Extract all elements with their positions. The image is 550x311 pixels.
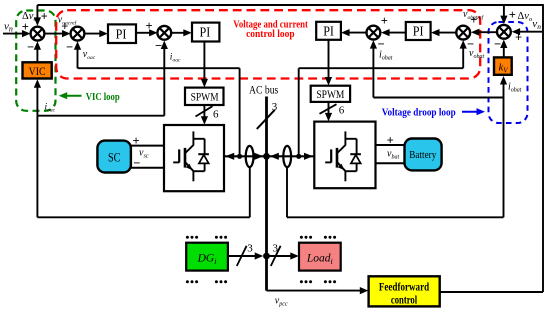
svg-text:SC: SC (108, 151, 121, 165)
block DG_i (186, 243, 228, 271)
svg-text:+: + (387, 134, 394, 148)
block k_V (494, 57, 512, 74)
svg-text:+: + (470, 13, 477, 27)
green dashed VIC loop boundary (16, 11, 55, 111)
wire right border feedforward (542, 4, 544, 292)
transistor IGBT with diode converter2 (325, 131, 361, 181)
svg-text:vpcc: vpcc (275, 296, 288, 308)
wire PI2 down to SPWM1 (203, 42, 205, 82)
transistor IGBT with diode converter1 (173, 131, 209, 181)
svg-text:VIC loop: VIC loop (86, 92, 120, 103)
svg-text:+: + (61, 20, 68, 34)
wire v_pcc to feedforward (267, 290, 363, 292)
wire v_obat sense (298, 68, 300, 156)
svg-text:−: − (155, 38, 162, 52)
svg-text:vn: vn (4, 21, 13, 34)
summer S3 (157, 26, 171, 40)
wire k_V to S6 (503, 45, 505, 58)
wire S2 to PI1 (84, 33, 101, 35)
summer S6 (497, 25, 511, 39)
svg-text:Voltage droop loop: Voltage droop loop (382, 106, 456, 118)
wire PI4 to S4 (387, 32, 406, 34)
wire PI1 to S3 (136, 32, 152, 34)
inductor ellipse L2 (283, 146, 291, 167)
svg-text:−: − (387, 156, 394, 170)
wire S1 to S2 (44, 33, 64, 35)
dots above DG_i (186, 236, 198, 239)
block feedforward control (369, 276, 440, 306)
red dashed voltage and current control loop boundary (56, 10, 480, 78)
svg-text:PI: PI (116, 26, 127, 41)
svg-text:+: + (41, 10, 48, 24)
svg-text:3: 3 (272, 101, 278, 113)
wire S4 to PI3 (347, 32, 367, 34)
svg-text:AC bus: AC bus (249, 84, 279, 96)
wire i_obat sense (286, 166, 288, 217)
svg-text:vsc: vsc (139, 148, 149, 160)
wire SC plus terminal (131, 145, 164, 147)
wire DG_i to bus (228, 255, 258, 257)
block Load_i (299, 243, 341, 271)
summer S4 (367, 26, 381, 40)
wire AC bus vertical (265, 97, 268, 291)
summer S1 (31, 27, 45, 41)
dots below DG_i (186, 280, 198, 283)
svg-text:vobat: vobat (469, 48, 484, 60)
block PI1 (108, 24, 136, 43)
wire S3 to PI2 (171, 32, 186, 34)
svg-text:6: 6 (213, 109, 219, 121)
svg-text:PI: PI (323, 24, 334, 39)
svg-text:DGi: DGi (197, 253, 217, 267)
wire S5 to PI4 (437, 32, 456, 34)
wire i_obat up to k_V (503, 82, 505, 98)
slash 3 load input (271, 246, 281, 266)
svg-text:+: + (381, 14, 388, 28)
svg-text:control loop: control loop (246, 28, 295, 40)
wire dv_o drop to summer S1 (36, 5, 38, 20)
svg-text:ioac: ioac (170, 53, 181, 64)
svg-text:−: − (494, 37, 501, 51)
blue dashed voltage droop loop boundary (489, 22, 528, 123)
svg-text:Feedforward: Feedforward (379, 281, 430, 293)
svg-text:−: − (133, 156, 140, 170)
inductor ellipse L1 (246, 146, 254, 167)
node bus-load junction (263, 253, 270, 260)
block PI3 (316, 22, 341, 40)
block PI2 (192, 23, 219, 42)
wire top dv_o feedback bus (37, 4, 543, 6)
block converter2 outline (314, 122, 375, 189)
wire v_oac sense (239, 68, 241, 156)
wire SPWM1 to converter1 (203, 105, 205, 119)
svg-text:SPWM: SPWM (316, 87, 344, 101)
svg-text:+: + (146, 19, 153, 33)
svg-text:+: + (515, 31, 522, 45)
svg-text:SPWM: SPWM (191, 89, 219, 103)
block PI4 (406, 22, 431, 40)
node junction v_oac sense (237, 154, 242, 159)
slash 6 SPWM1 output (196, 106, 213, 116)
svg-text:vn: vn (532, 18, 541, 31)
svg-text:3: 3 (273, 242, 279, 254)
block converter1 outline (164, 125, 224, 191)
wire SC minus terminal (131, 167, 164, 169)
wire v_n into summer S1 (3, 33, 25, 35)
wire i_oac sense (249, 166, 251, 217)
node junction v_obat sense (296, 154, 301, 159)
wire AC bus to converter2 (267, 155, 314, 157)
slash 3 DG output (237, 246, 247, 266)
svg-text:VIC: VIC (29, 66, 46, 78)
slash 3 on AC bus (257, 110, 275, 129)
wire SPWM2 to converter2 (328, 102, 330, 116)
svg-text:Δvo: Δvo (518, 11, 533, 23)
svg-text:3: 3 (247, 242, 253, 254)
svg-text:Battery: Battery (409, 149, 436, 161)
wire battery plus terminal (376, 144, 405, 146)
wire S6 to S5 (476, 31, 497, 33)
svg-text:PI: PI (413, 24, 424, 39)
wire feedforward output (440, 291, 543, 293)
slash 6 SPWM2 output (320, 104, 337, 114)
dots below Load_i (300, 280, 312, 283)
wire PI3 down to SPWM2 (328, 40, 330, 80)
svg-text:control: control (391, 294, 417, 306)
wire bus to Load_i (267, 255, 294, 257)
wire dv_o drop to summer S6 (503, 5, 505, 19)
block SPWM2 (311, 86, 350, 102)
svg-text:voac: voac (83, 49, 96, 61)
block SPWM1 (185, 88, 224, 105)
summer S5 (456, 26, 470, 40)
svg-text:6: 6 (339, 105, 345, 117)
svg-text:−: − (27, 40, 34, 54)
wire battery minus terminal (376, 162, 405, 164)
svg-text:iobat: iobat (508, 82, 522, 94)
wire i_oac up to VIC (36, 86, 38, 116)
dots above Load_i (300, 236, 312, 239)
block SC (97, 141, 130, 173)
svg-text:PI: PI (200, 25, 211, 40)
svg-text:iobat: iobat (379, 50, 393, 62)
svg-text:−: − (66, 40, 73, 54)
svg-text:Loadi: Loadi (306, 253, 333, 267)
svg-text:+: + (509, 8, 516, 22)
block Battery (405, 139, 442, 171)
wire VIC to S1 (36, 47, 38, 62)
wire converter1 to AC bus (224, 155, 267, 157)
wire v_n into summer S6 (517, 31, 544, 33)
svg-text:+: + (133, 134, 140, 148)
block VIC (23, 62, 52, 78)
svg-text:Δvo: Δvo (22, 11, 37, 23)
summer S2 (71, 27, 85, 41)
node AC bus junction (263, 153, 270, 160)
